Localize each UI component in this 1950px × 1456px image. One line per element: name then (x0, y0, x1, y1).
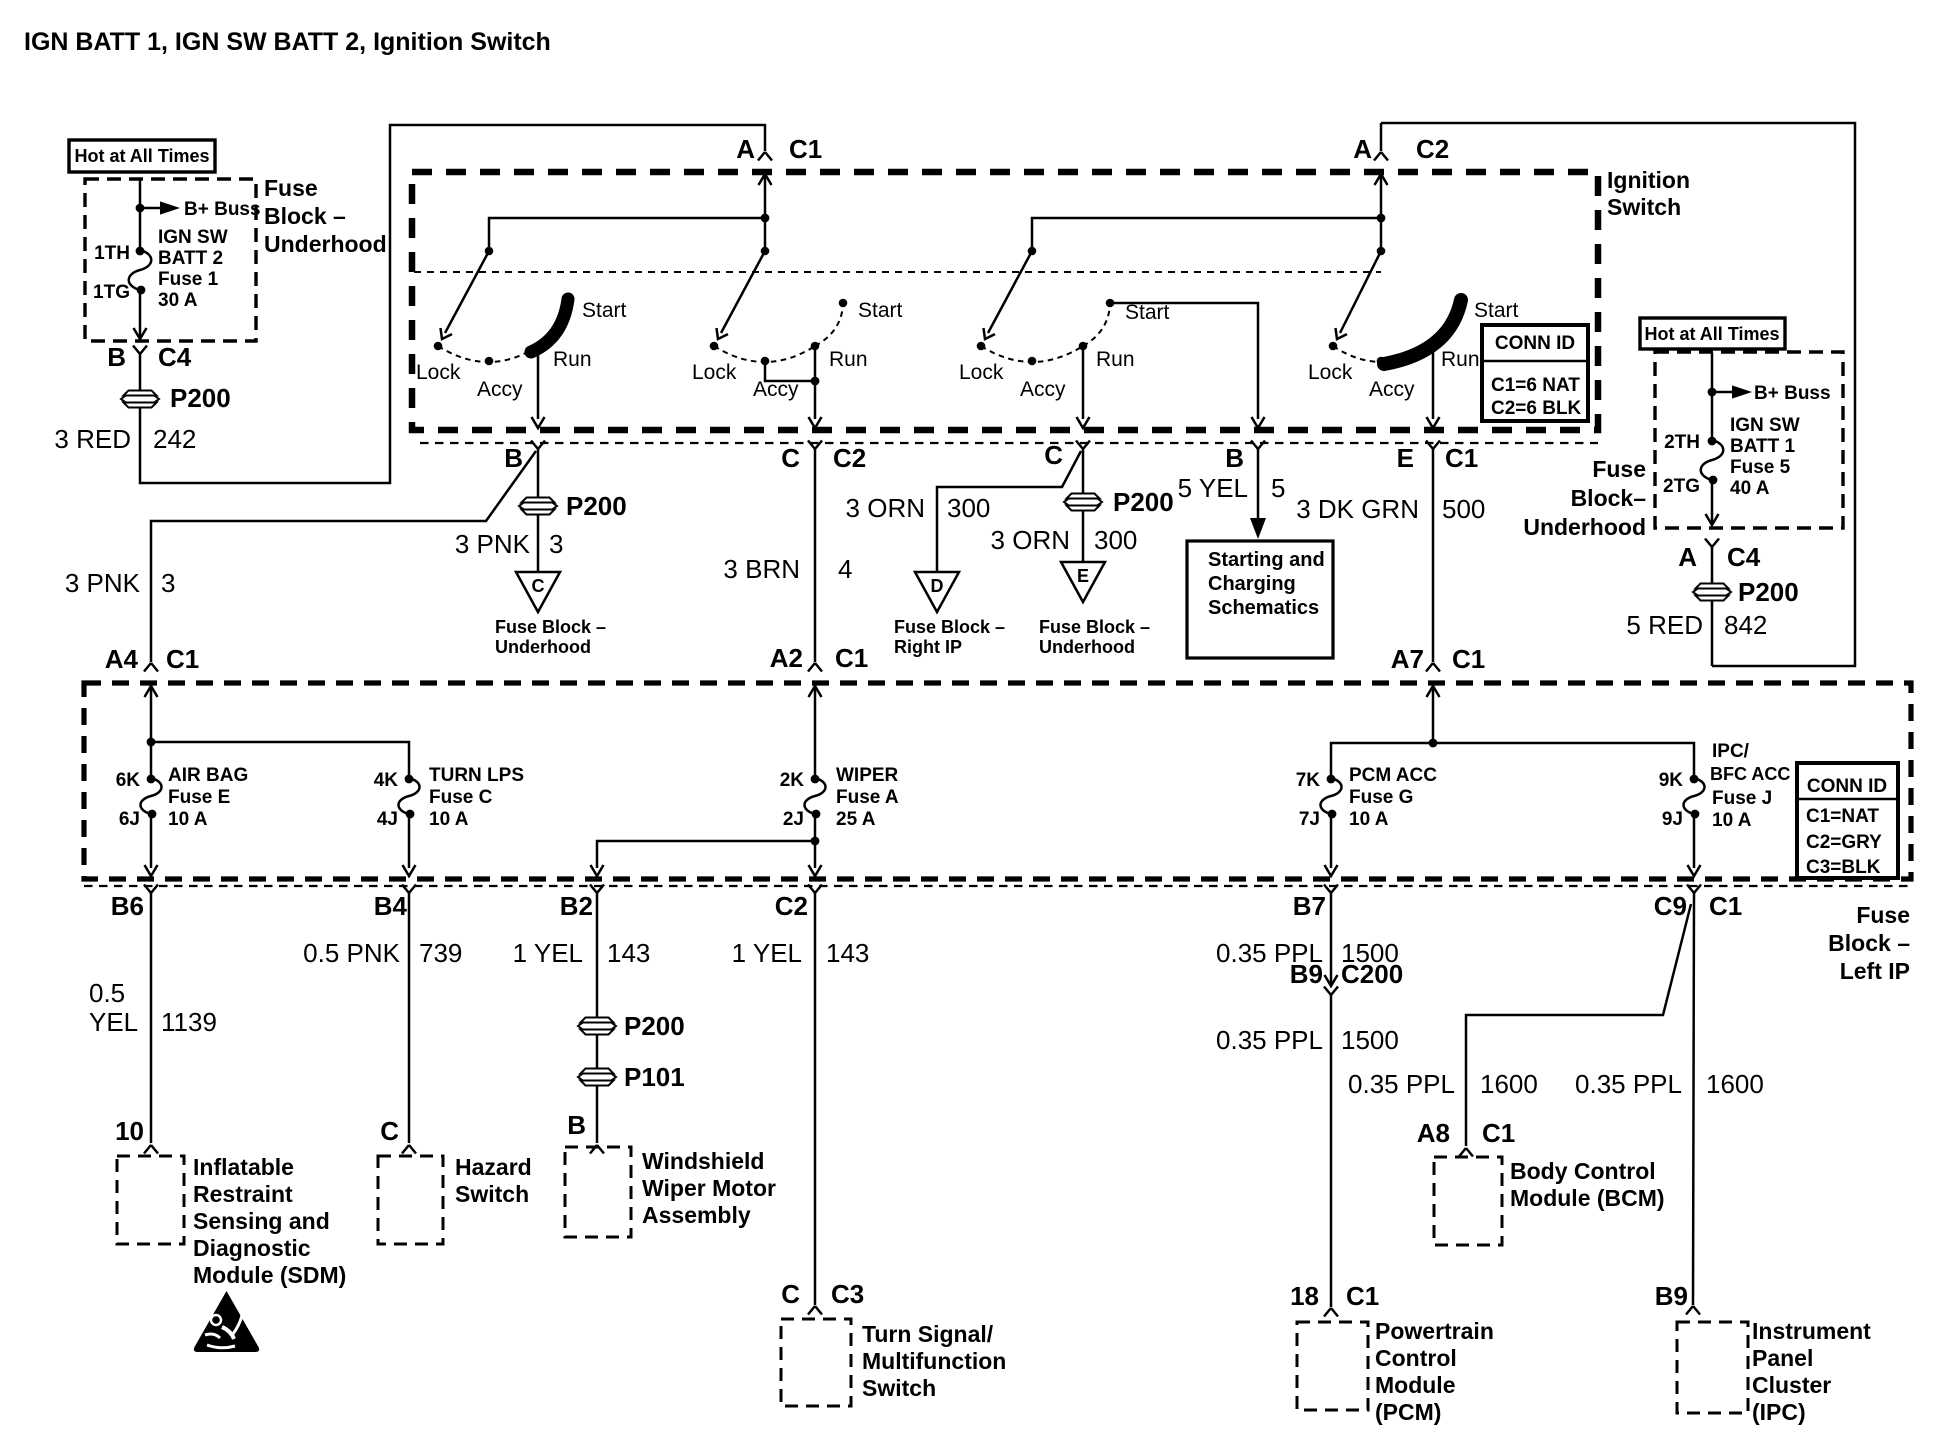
svg-text:739: 739 (419, 938, 462, 968)
svg-text:10 A: 10 A (168, 809, 208, 830)
svg-text:Assembly: Assembly (642, 1202, 751, 1228)
svg-text:1TG: 1TG (93, 282, 130, 303)
svg-text:B9: B9 (1290, 959, 1323, 989)
connector P200 on 3 PNK wire (519, 498, 557, 515)
svg-text:Block –: Block – (1828, 930, 1910, 956)
wire A7 down to junction (1432, 686, 1435, 743)
fuse F1 S-curve (129, 250, 152, 290)
svg-text:3 ORN: 3 ORN (846, 493, 925, 523)
ignition switch gang dashed line (414, 271, 1381, 273)
junction dot 2J branch (811, 837, 820, 846)
pin fork A8 C1 at BCM (1459, 1148, 1473, 1157)
switch 4 Run output wire (1432, 346, 1435, 419)
svg-text:IGN SW: IGN SW (158, 227, 228, 248)
svg-text:C: C (380, 1116, 399, 1146)
svg-text:2TG: 2TG (1663, 476, 1700, 497)
svg-text:B: B (567, 1110, 586, 1140)
svg-text:C1: C1 (166, 644, 199, 674)
pin fork B7 (1324, 885, 1338, 894)
svg-text:Underhood: Underhood (495, 637, 591, 657)
svg-text:3 BRN: 3 BRN (723, 554, 800, 584)
svg-text:Fuse E: Fuse E (168, 787, 230, 808)
svg-text:3 PNK: 3 PNK (455, 529, 531, 559)
wire 0.5 PNK down to hazard switch (408, 893, 411, 1143)
switch 3 Accy dot (1028, 357, 1037, 366)
switch 3 Lock dot (977, 342, 986, 351)
switch 1 Accy dot (485, 357, 494, 366)
svg-text:Schematics: Schematics (1208, 597, 1319, 619)
pin fork E C1 (1426, 441, 1440, 450)
switch 3 Run output wire (1082, 346, 1085, 419)
svg-text:CONN ID: CONN ID (1807, 776, 1887, 797)
svg-text:1 YEL: 1 YEL (513, 938, 583, 968)
svg-text:0.35 PPL: 0.35 PPL (1216, 1025, 1323, 1055)
ignition switch connector face dashed line (420, 442, 1598, 444)
switch 4 Lock dot (1329, 342, 1338, 351)
svg-text:25 A: 25 A (836, 809, 876, 830)
wire: fuse1 feed top (139, 180, 142, 251)
triangle connector C (516, 572, 560, 612)
wire 9J down to C9 (1693, 814, 1696, 868)
junction dot bus at A C2 riser (1377, 214, 1386, 223)
svg-text:Start: Start (582, 299, 627, 322)
fuse 5 S-curve (1701, 440, 1724, 480)
fuse E AIR BAG (141, 778, 162, 814)
svg-text:Switch: Switch (455, 1181, 529, 1207)
switch 2 pivot dot (761, 247, 770, 256)
svg-text:Ignition: Ignition (1607, 167, 1690, 193)
svg-text:BATT 2: BATT 2 (158, 248, 223, 269)
svg-text:C2: C2 (1416, 134, 1449, 164)
pin fork B2 (590, 885, 604, 894)
svg-text:C200: C200 (1341, 959, 1403, 989)
svg-text:Fuse: Fuse (1856, 902, 1910, 928)
svg-text:C1: C1 (1452, 644, 1485, 674)
svg-text:C1: C1 (1346, 1281, 1379, 1311)
svg-text:2TH: 2TH (1664, 432, 1700, 453)
fuse block left IP connector face dashed line (84, 885, 1911, 887)
hot at all times label box left (69, 140, 215, 172)
svg-text:10 A: 10 A (429, 809, 469, 830)
svg-text:Fuse Block –: Fuse Block – (894, 617, 1005, 637)
connector P200 on 1 YEL (578, 1018, 616, 1035)
connector P200 on 3 ORN wire (1064, 494, 1102, 511)
switch 4 wiper arm to Lock (1340, 251, 1381, 333)
switch 4 pivot dot (1377, 247, 1386, 256)
svg-text:C4: C4 (1727, 542, 1761, 572)
svg-text:Lock: Lock (1308, 361, 1353, 384)
svg-text:Fuse 5: Fuse 5 (1730, 457, 1791, 478)
svg-text:Fuse J: Fuse J (1712, 788, 1772, 809)
arrow up into fuse block at A4 (145, 686, 158, 697)
svg-text:Accy: Accy (1020, 378, 1066, 401)
svg-text:Hot at All Times: Hot at All Times (74, 146, 209, 166)
svg-text:4: 4 (838, 554, 852, 584)
svg-text:WIPER: WIPER (836, 765, 899, 786)
svg-text:A4: A4 (105, 644, 139, 674)
fuse C TURN LPS (399, 778, 420, 814)
svg-text:40 A: 40 A (1730, 478, 1770, 499)
svg-text:C1=6 NAT: C1=6 NAT (1491, 375, 1580, 396)
svg-text:Panel: Panel (1752, 1345, 1813, 1371)
switch 1 key actuator thick arc (531, 299, 568, 352)
svg-text:C1: C1 (789, 134, 822, 164)
SDM dashed box (117, 1156, 184, 1244)
triangle connector E (1061, 562, 1105, 602)
svg-text:B2: B2 (560, 891, 593, 921)
svg-text:3: 3 (549, 529, 563, 559)
svg-text:Body Control: Body Control (1510, 1158, 1656, 1184)
arrow up into fuse block at A2 (809, 686, 822, 697)
svg-text:B6: B6 (111, 891, 144, 921)
switch 1 Run dot (534, 342, 543, 351)
svg-text:Starting and: Starting and (1208, 549, 1325, 571)
svg-text:Underhood: Underhood (1039, 637, 1135, 657)
pin fork A C1 (758, 152, 772, 161)
pin fork A2 C1 (808, 663, 822, 672)
svg-text:Underhood: Underhood (1523, 514, 1646, 540)
svg-text:B: B (1225, 443, 1244, 473)
svg-text:Module: Module (1375, 1372, 1456, 1398)
switch 1 wiper arm to Lock (445, 251, 489, 333)
svg-text:Fuse Block –: Fuse Block – (495, 617, 606, 637)
svg-text:C1: C1 (1482, 1118, 1515, 1148)
fuse G PCM ACC (1321, 778, 1342, 814)
svg-text:B7: B7 (1293, 891, 1326, 921)
svg-text:Run: Run (829, 348, 868, 371)
svg-text:C: C (532, 576, 545, 596)
svg-text:PCM ACC: PCM ACC (1349, 765, 1437, 786)
svg-text:C2=6 BLK: C2=6 BLK (1491, 398, 1582, 419)
svg-text:4J: 4J (377, 809, 398, 830)
svg-text:5 RED: 5 RED (1626, 610, 1703, 640)
svg-text:Lock: Lock (692, 361, 737, 384)
svg-text:300: 300 (947, 493, 990, 523)
svg-text:Switch: Switch (1607, 194, 1681, 220)
junction dot B+ left (136, 204, 145, 213)
svg-text:6K: 6K (116, 770, 141, 791)
svg-text:Fuse 1: Fuse 1 (158, 269, 219, 290)
svg-text:BATT 1: BATT 1 (1730, 436, 1796, 457)
svg-text:Charging: Charging (1208, 573, 1296, 595)
svg-text:Module (BCM): Module (BCM) (1510, 1185, 1665, 1211)
branch to BCM: diagonal, horizontal, down (1466, 904, 1691, 1146)
branch from B to A4: diagonal and horizontal and down (151, 451, 536, 662)
switch 2 detent arc dashed (714, 346, 815, 362)
svg-text:Control: Control (1375, 1345, 1457, 1371)
svg-text:C1: C1 (1445, 443, 1478, 473)
wire 0.35 PPL down to PCM (1330, 995, 1333, 1307)
svg-text:A: A (1353, 134, 1372, 164)
svg-text:Hazard: Hazard (455, 1154, 532, 1180)
svg-text:Accy: Accy (1369, 378, 1415, 401)
svg-text:242: 242 (153, 424, 196, 454)
svg-text:P200: P200 (1738, 577, 1799, 607)
pin fork A7 C1 (1426, 663, 1440, 672)
starting and charging schematics box (1187, 541, 1333, 658)
CONN ID box 2 (1797, 763, 1898, 878)
pin fork C C2 (808, 441, 822, 450)
svg-text:Fuse Block –: Fuse Block – (1039, 617, 1150, 637)
svg-text:C9: C9 (1654, 891, 1687, 921)
svg-text:A: A (736, 134, 755, 164)
svg-text:Diagnostic: Diagnostic (193, 1235, 311, 1261)
svg-text:IGN BATT 1, IGN SW BATT 2, Ign: IGN BATT 1, IGN SW BATT 2, Ignition Swit… (24, 28, 551, 56)
pin fork B (start3) (1251, 441, 1265, 450)
wire fuse5 to box bottom (1711, 480, 1714, 525)
B+ buss stub left (140, 207, 162, 210)
svg-text:1500: 1500 (1341, 1025, 1399, 1055)
svg-text:3 RED: 3 RED (54, 424, 131, 454)
svg-text:Windshield: Windshield (642, 1148, 764, 1174)
pin fork C at hazard (402, 1145, 416, 1154)
svg-text:E: E (1077, 566, 1089, 586)
B+ buss filled arrow left (160, 201, 180, 214)
svg-text:143: 143 (607, 938, 650, 968)
svg-text:Fuse: Fuse (1592, 456, 1646, 482)
svg-text:IGN SW: IGN SW (1730, 415, 1800, 436)
svg-text:Accy: Accy (477, 378, 523, 401)
svg-text:500: 500 (1442, 494, 1485, 524)
svg-text:Block –: Block – (264, 203, 346, 229)
svg-text:Wiper Motor: Wiper Motor (642, 1175, 776, 1201)
pin fork A C4 right (1705, 539, 1719, 548)
pin fork B under ignition switch (531, 441, 545, 450)
svg-text:2K: 2K (780, 770, 805, 791)
pin fork A4 C1 (144, 663, 158, 672)
svg-text:BFC ACC: BFC ACC (1710, 764, 1790, 784)
switch 3 detent arc dashed (981, 346, 1083, 362)
wire 7J down to B7 (1330, 814, 1333, 868)
switch 3 Start output wire to 5 YEL (1110, 303, 1258, 419)
svg-text:0.35 PPL: 0.35 PPL (1575, 1069, 1682, 1099)
svg-text:B+ Buss: B+ Buss (184, 199, 261, 220)
fuse A WIPER (805, 778, 826, 814)
svg-text:5: 5 (1271, 473, 1285, 503)
wire 3 DK GRN down to A7 (1432, 449, 1435, 662)
svg-text:Switch: Switch (862, 1375, 936, 1401)
svg-text:Turn Signal/: Turn Signal/ (862, 1321, 994, 1347)
pin fork B at wiper motor (590, 1145, 604, 1154)
wire 5 YEL down to starting box (1257, 449, 1260, 522)
svg-text:Powertrain: Powertrain (1375, 1318, 1494, 1344)
wire A4 down to AIR BAG fuse (150, 686, 153, 778)
switch 1 pivot dot (485, 247, 494, 256)
pin fork C (run3) (1076, 441, 1090, 450)
switch 4 Accy dot (1377, 357, 1386, 366)
svg-text:1 YEL: 1 YEL (732, 938, 802, 968)
svg-text:CONN ID: CONN ID (1495, 333, 1575, 354)
switch 2 Start dot (839, 299, 848, 308)
svg-text:1600: 1600 (1480, 1069, 1538, 1099)
svg-text:3: 3 (161, 568, 175, 598)
svg-text:C1: C1 (1709, 891, 1742, 921)
svg-text:Run: Run (553, 348, 592, 371)
pin fork C2 (808, 885, 822, 894)
wire 3 BRN down to A2 (814, 449, 817, 662)
svg-text:1139: 1139 (161, 1007, 217, 1037)
wire 0.35 PPL down to IPC (1693, 893, 1694, 1305)
wire 4J down to B4 (408, 814, 411, 868)
switch 4 detent arc dashed (1333, 346, 1433, 362)
connector P200 right (1693, 584, 1731, 601)
svg-text:E: E (1397, 443, 1414, 473)
svg-text:Start: Start (1125, 301, 1170, 324)
fuse 5 terminal dots (1708, 437, 1717, 446)
hazard switch dashed box (378, 1156, 443, 1244)
CONN ID box 1 (1482, 325, 1588, 421)
pin fork B9 at IPC (1686, 1306, 1700, 1315)
svg-text:10 A: 10 A (1349, 809, 1389, 830)
svg-text:Fuse A: Fuse A (836, 787, 899, 808)
svg-text:YEL: YEL (89, 1007, 138, 1037)
svg-text:3 PNK: 3 PNK (65, 568, 141, 598)
svg-text:Module (SDM): Module (SDM) (193, 1262, 346, 1288)
svg-text:A7: A7 (1391, 644, 1424, 674)
svg-text:P200: P200 (1113, 487, 1174, 517)
fuse block left IP heavy dashed box (84, 683, 1911, 879)
svg-text:0.5 PNK: 0.5 PNK (303, 938, 400, 968)
wire A C2 riser to pivot (1380, 174, 1383, 253)
top feed line to right hot box (1381, 123, 1855, 666)
svg-text:AIR BAG: AIR BAG (168, 765, 248, 786)
svg-text:1600: 1600 (1706, 1069, 1764, 1099)
pin fork B6 (144, 885, 158, 894)
switch 2 Run output wire (814, 346, 817, 419)
svg-text:10 A: 10 A (1712, 810, 1752, 831)
fuse F1 terminal dots (136, 247, 145, 256)
svg-text:Inflatable: Inflatable (193, 1154, 294, 1180)
BCM dashed box (1434, 1157, 1502, 1245)
switch 1 Run output wire (537, 346, 540, 419)
turn signal dashed box (781, 1319, 851, 1406)
wire A2 down to WIPER fuse (814, 686, 817, 778)
svg-text:Start: Start (858, 299, 903, 322)
svg-text:2J: 2J (783, 809, 804, 830)
pin fork C9 C1 (1687, 885, 1701, 894)
wire 2J down with branch (814, 814, 817, 868)
inline connector C200 arrow and fork (1325, 975, 1338, 986)
svg-text:C: C (1044, 440, 1063, 470)
svg-text:D: D (931, 576, 944, 596)
svg-text:C3: C3 (831, 1279, 864, 1309)
wire B/C4 through P200 down then right up to A C1 (140, 125, 765, 483)
svg-text:Start: Start (1474, 299, 1519, 322)
svg-text:C: C (781, 1279, 800, 1309)
svg-text:C: C (781, 443, 800, 473)
svg-text:Underhood: Underhood (264, 231, 387, 257)
svg-text:6J: 6J (119, 809, 140, 830)
svg-text:Run: Run (1441, 348, 1480, 371)
B+ buss filled arrow right (1732, 385, 1752, 398)
junction dot bus at A C1 riser (761, 214, 770, 223)
svg-text:B: B (504, 443, 523, 473)
svg-text:B: B (107, 342, 126, 372)
ignition switch heavy dashed box (412, 172, 1598, 430)
svg-text:A2: A2 (770, 643, 803, 673)
svg-text:Cluster: Cluster (1752, 1372, 1831, 1398)
arrow down at right hot box bottom (1706, 514, 1719, 525)
wire 5 RED down to corner (1711, 547, 1714, 666)
svg-text:Instrument: Instrument (1752, 1318, 1871, 1344)
wire 0.5 YEL down to SDM (150, 893, 153, 1143)
svg-text:0.5: 0.5 (89, 978, 125, 1008)
pin fork B4 (402, 885, 416, 894)
fuse block underhood dashed box right (1655, 352, 1843, 528)
PCM dashed box (1297, 1322, 1368, 1410)
wiper motor dashed box (565, 1147, 631, 1237)
switch 2 Accy jumper to Run wire (765, 361, 815, 381)
svg-text:7J: 7J (1299, 809, 1320, 830)
svg-text:143: 143 (826, 938, 869, 968)
svg-text:9J: 9J (1662, 809, 1683, 830)
svg-text:P200: P200 (170, 383, 231, 413)
arrow up into ignition switch at A C2 (1375, 174, 1388, 185)
svg-text:C2=GRY: C2=GRY (1806, 832, 1882, 853)
svg-text:(IPC): (IPC) (1752, 1399, 1806, 1425)
svg-text:A8: A8 (1417, 1118, 1450, 1148)
fuse J IPC/BFC ACC (1684, 778, 1705, 814)
triangle connector D (915, 572, 959, 612)
svg-text:C1: C1 (835, 643, 868, 673)
svg-text:IPC/: IPC/ (1712, 741, 1750, 762)
svg-text:1TH: 1TH (94, 243, 130, 264)
svg-text:Multifunction: Multifunction (862, 1348, 1006, 1374)
ignition bus right segment (1032, 218, 1381, 252)
switch 2 Accy dot (761, 357, 770, 366)
svg-text:9K: 9K (1659, 770, 1684, 791)
connector P200 left (121, 391, 159, 408)
svg-text:Run: Run (1096, 348, 1135, 371)
svg-text:C2: C2 (775, 891, 808, 921)
feed line to fuse G and fuse J (1331, 743, 1694, 778)
pin fork A C2 (1374, 152, 1388, 161)
svg-text:30 A: 30 A (158, 290, 198, 311)
right hot box feed wire (1711, 353, 1714, 440)
svg-text:300: 300 (1094, 525, 1137, 555)
hot at all times label box right (1640, 318, 1785, 349)
svg-text:C4: C4 (158, 342, 192, 372)
svg-text:Accy: Accy (753, 378, 799, 401)
svg-text:P101: P101 (624, 1062, 685, 1092)
pin fork C C3 at turn signal (808, 1306, 822, 1315)
branch diagonal to D wire (937, 451, 1081, 571)
svg-text:P200: P200 (566, 491, 627, 521)
svg-text:Lock: Lock (416, 361, 461, 384)
wire 3 ORN down through P200 to triangle E (1082, 449, 1085, 561)
switch 4 Run dot (1429, 342, 1438, 351)
svg-text:B+ Buss: B+ Buss (1754, 383, 1831, 404)
svg-text:B4: B4 (374, 891, 408, 921)
svg-text:C3=BLK: C3=BLK (1806, 857, 1881, 878)
switch 3 Start dot (1106, 299, 1115, 308)
svg-text:P200: P200 (624, 1011, 685, 1041)
wire 0.35 PPL down to C200 (1330, 893, 1333, 985)
svg-text:Left IP: Left IP (1840, 958, 1910, 984)
wire A C1 riser to bus (764, 174, 767, 252)
svg-text:B9: B9 (1655, 1281, 1688, 1311)
svg-text:TURN LPS: TURN LPS (429, 765, 524, 786)
svg-text:Fuse G: Fuse G (1349, 787, 1413, 808)
svg-text:Fuse C: Fuse C (429, 787, 493, 808)
junction dot feed airbag/turn (147, 738, 156, 747)
B+ buss stub right (1712, 391, 1734, 394)
svg-text:4K: 4K (374, 770, 399, 791)
switch 4 key actuator thick arc (1384, 300, 1461, 364)
filled arrow into starting box (1250, 518, 1266, 539)
svg-text:(PCM): (PCM) (1375, 1399, 1441, 1425)
switch 2 Run dot (811, 342, 820, 351)
